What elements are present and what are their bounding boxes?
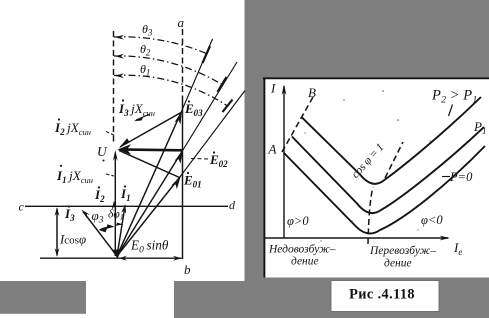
pole ink blob	[112, 249, 123, 259]
dot over E02	[213, 151, 215, 153]
theta3 arc	[114, 37, 207, 54]
vector E01	[117, 178, 180, 257]
vector I1 arrowhead	[121, 204, 126, 214]
I2jX label leader dashes	[106, 132, 115, 136]
baseline through pole	[40, 257, 182, 259]
small angle arrow right of U line	[116, 223, 124, 226]
caption white box	[331, 281, 439, 312]
svg-text:I2 jXсин: I2 jXсин	[54, 120, 91, 137]
dashed cos phi = 1 line upper	[385, 142, 403, 178]
P2 label leader	[449, 105, 453, 117]
dot over E03	[188, 100, 190, 102]
y axis	[283, 86, 285, 238]
svg-text:I: I	[270, 81, 276, 96]
theta1 arc	[114, 75, 228, 106]
svg-text:E0 sinθ: E0 sinθ	[130, 238, 169, 256]
vector E02	[117, 152, 182, 257]
svg-text:d: d	[229, 198, 236, 212]
E02 extension line	[182, 62, 237, 152]
E02 label leader dashes	[191, 158, 209, 161]
dot over E01	[187, 172, 189, 174]
phi3 arc right arrowhead	[106, 224, 115, 229]
theta2 arc arrowhead	[115, 54, 124, 59]
svg-text:A: A	[268, 142, 277, 157]
svg-text:I3 jXсин: I3 jXсин	[118, 101, 155, 118]
svg-text:a: a	[178, 15, 185, 30]
svg-text:θ3: θ3	[142, 22, 153, 38]
y axis arrowhead	[282, 85, 287, 96]
svg-text:I1: I1	[120, 186, 131, 203]
measure arrow E0 sin theta left head	[119, 256, 128, 261]
svg-text:B: B	[308, 85, 316, 100]
gray scan background right column	[245, 0, 265, 318]
vector E03 arrowhead	[175, 111, 182, 125]
measure arrow down head	[55, 248, 60, 257]
gray scan background bottom-right	[263, 278, 489, 318]
phi3 arc left arrowhead	[99, 227, 108, 232]
svg-text:c: c	[19, 200, 25, 214]
svg-text:φ3: φ3	[92, 208, 104, 226]
svg-text:дение: дение	[384, 258, 412, 270]
svg-text:δφ1: δφ1	[108, 209, 124, 222]
P=0 label leader	[442, 176, 450, 178]
curve P1	[292, 127, 484, 213]
svg-text:E02: E02	[209, 152, 228, 169]
vector jX I1 diagonal	[119, 151, 180, 178]
vector E01 arrowhead	[171, 176, 181, 190]
dot over I1jX	[60, 165, 62, 167]
svg-text:θ2: θ2	[140, 42, 151, 58]
svg-text:Рис .4.118: Рис .4.118	[349, 287, 415, 303]
svg-text:дение: дение	[291, 256, 319, 268]
measure arrow E0 sin theta right head	[173, 256, 182, 261]
vector E03	[117, 113, 181, 257]
svg-text:P2 > P1: P2 > P1	[431, 88, 478, 106]
vector jX I2 thick horizontal	[126, 148, 183, 151]
measure line I cos phi	[56, 209, 58, 256]
vector U vertical	[114, 153, 116, 256]
theta3 arc arrowhead	[115, 35, 124, 40]
theta2 arc	[114, 56, 222, 85]
dot over I1	[124, 185, 126, 187]
speck after U	[103, 160, 105, 162]
measure arrow up head	[55, 207, 60, 216]
dot over I3	[68, 205, 70, 207]
I1jX label leader dashes	[106, 174, 114, 176]
x axis arrowhead	[440, 236, 451, 241]
I3jX label leader arrow	[136, 114, 150, 120]
graph box top border	[263, 77, 489, 79]
axis a-b solid	[182, 96, 184, 259]
graph box left border	[263, 78, 265, 278]
vector I3	[83, 212, 117, 257]
dashed vertical reference line	[113, 31, 115, 142]
gray scan block bottom-left	[0, 281, 86, 314]
dot over I2jX	[58, 118, 60, 120]
vector E02 arrowhead	[175, 150, 183, 164]
jX I2 big arrowhead	[118, 144, 132, 155]
vector I3 arrowhead	[82, 210, 91, 219]
svg-text:cos φ = 1: cos φ = 1	[349, 141, 386, 180]
svg-text:P=0: P=0	[449, 170, 473, 184]
jX I3 arrowhead	[119, 138, 130, 148]
E01 arc-end bold mark	[223, 100, 233, 113]
curve P2	[302, 97, 481, 184]
gray scan background top-right	[263, 0, 489, 78]
gray scan block bottom-middle	[174, 281, 245, 318]
dashed line A-B	[282, 97, 313, 152]
svg-text:φ<0: φ<0	[421, 213, 443, 227]
theta1 arc arrowhead	[115, 73, 124, 78]
E02 arc-end bold mark	[218, 77, 227, 92]
vector I2 arrowhead on U line	[112, 201, 117, 210]
svg-text:Icosφ: Icosφ	[59, 233, 86, 247]
phi3 angle arc	[100, 227, 113, 230]
dot over I3jX	[122, 99, 124, 101]
vector jX I3 diagonal	[120, 113, 181, 148]
dashed cos phi = 1 line lower	[368, 187, 373, 244]
svg-text:I1 jXсин: I1 jXсин	[56, 168, 93, 185]
svg-text:Перевозбуж–: Перевозбуж–	[369, 245, 436, 257]
E01 extension line	[180, 91, 246, 178]
E03 arc-end bold mark	[203, 46, 211, 63]
svg-text:Недовозбуж–: Недовозбуж–	[268, 244, 336, 256]
curve P=0	[284, 146, 486, 234]
svg-text:Ie: Ie	[453, 240, 462, 257]
line c-d	[25, 205, 228, 207]
vector I1	[117, 206, 125, 256]
svg-text:E03: E03	[184, 101, 203, 118]
svg-text:θ1: θ1	[140, 62, 150, 78]
svg-text:P1: P1	[473, 119, 486, 136]
svg-text:φ>0: φ>0	[287, 214, 309, 228]
svg-text:E01: E01	[183, 173, 202, 190]
svg-text:U: U	[97, 144, 108, 159]
svg-text:I2: I2	[94, 187, 105, 204]
svg-text:I3: I3	[64, 206, 75, 223]
scan noise specks	[304, 90, 430, 241]
x axis	[264, 237, 448, 239]
E03 extension line	[181, 39, 213, 113]
axis a-b dashed top	[182, 29, 184, 96]
vector U arrowhead	[113, 150, 118, 161]
dot over I2	[98, 186, 100, 188]
svg-text:b: b	[184, 262, 191, 277]
